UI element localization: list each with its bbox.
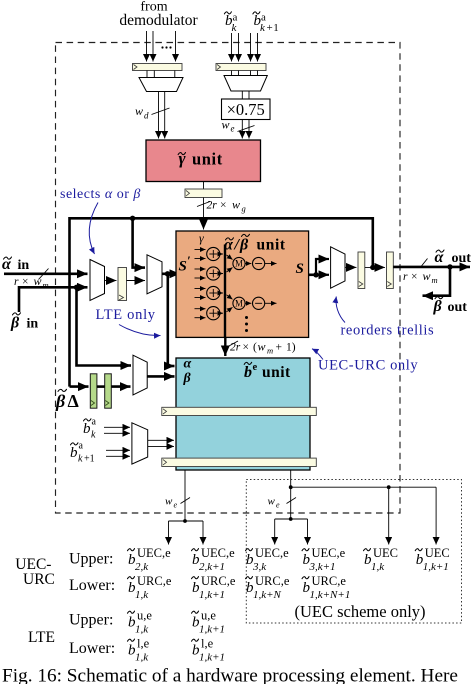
svg-text:Lower:: Lower: (69, 577, 115, 594)
max unit MX1 (227, 255, 246, 272)
feedback wire top (70, 216, 376, 387)
label we top (222, 118, 235, 134)
svg-text:1): 1) (286, 342, 296, 354)
be unit box (176, 358, 310, 470)
wire R1 to mux M2 (127, 280, 146, 282)
register bar bka (216, 64, 266, 71)
bus wd (152, 92, 170, 139)
svg-text:URC: URC (23, 571, 55, 588)
svg-text:Lower:: Lower: (69, 640, 115, 657)
wires register to funnel right (232, 71, 258, 76)
svg-text:l,e: l,e (137, 637, 150, 651)
svg-text:LTE only: LTE only (96, 307, 156, 323)
label b2k1-uece (192, 546, 236, 573)
label UEC-URC (15, 556, 55, 588)
label beta in (10, 313, 38, 332)
svg-text:×: × (220, 200, 227, 212)
wire R2 to R3 (365, 266, 385, 268)
mux M4 reorder (331, 247, 345, 288)
svg-text:out: out (452, 251, 472, 266)
wire fan2 from be unit (275, 470, 436, 545)
register R2 (358, 252, 365, 289)
svg-text:b: b (244, 364, 252, 381)
svg-text:2r: 2r (230, 342, 241, 354)
label b2k-uece (128, 546, 172, 573)
annotation LTE only (96, 307, 161, 336)
svg-text:β: β (10, 315, 20, 332)
svg-text:×0.75: ×0.75 (227, 100, 265, 119)
label b3k-uece (246, 546, 290, 573)
alpha/beta unit box (176, 231, 309, 337)
svg-text:1,k+1: 1,k+1 (423, 561, 449, 573)
svg-text:unit: unit (262, 364, 291, 381)
label b1k-uec (364, 546, 399, 573)
svg-text:r: r (403, 271, 408, 283)
svg-text:LTE: LTE (28, 629, 55, 646)
svg-text:g: g (242, 204, 246, 214)
svg-text:3,k+1: 3,k+1 (309, 561, 336, 573)
label b1k1-le (192, 637, 226, 664)
svg-text:d: d (144, 111, 149, 121)
svg-text:2r: 2r (207, 200, 218, 212)
svg-text:w: w (165, 496, 173, 508)
svg-text:URC,e: URC,e (312, 574, 347, 588)
svg-text:unit: unit (257, 237, 286, 254)
svg-text:m: m (267, 346, 273, 356)
svg-text:β: β (183, 371, 192, 386)
mux M1 input (90, 260, 105, 301)
svg-text:b: b (83, 421, 91, 437)
svg-text:3,k: 3,k (252, 561, 267, 573)
label we fan2 (268, 496, 281, 510)
svg-text:+1: +1 (84, 454, 95, 465)
svg-text:2,k+1: 2,k+1 (199, 561, 225, 573)
svg-text:×: × (243, 342, 250, 354)
label bka top (224, 12, 237, 35)
svg-text:Fig. 16: Schematic of a hardwa: Fig. 16: Schematic of a hardware process… (2, 666, 458, 684)
svg-text:β: β (433, 298, 443, 315)
svg-text:UEC,e: UEC,e (255, 546, 289, 560)
adder A4 (195, 307, 224, 320)
wires bka to register (232, 33, 258, 62)
label 2r x (wm+1) (230, 340, 296, 356)
svg-text:w: w (258, 340, 266, 354)
outer dashed box (56, 43, 401, 514)
svg-text:2,k: 2,k (135, 561, 149, 573)
svg-text:1,k+N: 1,k+N (253, 589, 282, 601)
svg-text:(UEC scheme only): (UEC scheme only) (294, 602, 425, 621)
svg-text:1,k+1: 1,k+1 (199, 589, 225, 601)
svg-text:Upper:: Upper: (69, 612, 113, 629)
svg-text:UEC,e: UEC,e (312, 546, 346, 560)
svg-text:′: ′ (187, 253, 191, 268)
svg-text:w: w (222, 118, 230, 132)
wires M5 to be unit (148, 440, 174, 446)
svg-text:in: in (18, 258, 30, 273)
adder A3 (195, 286, 224, 299)
svg-text:w: w (232, 198, 240, 212)
label beta out (433, 297, 468, 315)
label b1k-ue (128, 609, 153, 636)
svg-text:1,k+N+1: 1,k+N+1 (310, 589, 351, 601)
label alpha out (435, 249, 472, 266)
wire alpha out (393, 259, 470, 270)
wire select to mux M2 (133, 218, 145, 267)
wires bka into mux M5 (104, 427, 130, 456)
svg-text:out: out (448, 300, 468, 315)
annotation UEC-URC only (312, 349, 418, 374)
mux M2 (147, 255, 162, 294)
register bar demod (133, 64, 183, 71)
svg-text:URC,e: URC,e (201, 574, 236, 588)
svg-text:a: a (92, 417, 97, 428)
wire M4 to register R2 (345, 266, 357, 268)
svg-text:e: e (253, 362, 258, 373)
subtractor SB2 (245, 297, 276, 309)
label alpha in (2, 256, 29, 273)
svg-text:k: k (91, 430, 96, 441)
svg-text:(: ( (253, 342, 257, 354)
multiplier x0.75 box (222, 99, 271, 120)
max unit MX2 (227, 295, 246, 312)
svg-text:b: b (70, 445, 78, 461)
mux M5 (132, 423, 148, 464)
svg-text:S: S (296, 261, 304, 277)
svg-text:w: w (135, 104, 143, 118)
annotation selects alpha or beta (60, 187, 141, 254)
label from demodulator (119, 0, 198, 29)
wire S out of box (309, 259, 329, 277)
wire M1 to register R1 (105, 280, 117, 282)
svg-text:URC,e: URC,e (255, 574, 290, 588)
mux M3 lower (133, 355, 147, 395)
label S prime (179, 253, 192, 275)
svg-text:S: S (179, 259, 187, 275)
bus we to gamma unit (238, 120, 255, 139)
svg-text:α: α (184, 357, 192, 372)
bus funnel to x0.75 (242, 91, 249, 99)
label bk+1a lower (70, 441, 95, 465)
wire S prime into alpha-beta unit (162, 271, 180, 276)
svg-text:UEC,e: UEC,e (201, 546, 235, 560)
wire between green registers (97, 385, 105, 388)
svg-text:w: w (34, 274, 42, 288)
label bka lower (83, 417, 97, 441)
wire beta in (19, 285, 88, 312)
label b1k1-ue (192, 609, 226, 636)
register R3 (387, 252, 394, 289)
register bar B2 (162, 458, 316, 466)
label b1k-le (128, 637, 150, 664)
label 2r x wg (207, 198, 246, 214)
green register D2 (105, 374, 112, 408)
svg-text:Upper:: Upper: (69, 551, 113, 568)
svg-text:l,e: l,e (201, 637, 214, 651)
svg-text:×: × (411, 271, 418, 283)
adder A2 (195, 267, 224, 280)
register below gamma unit (185, 182, 222, 198)
wire alpha branch down to be unit (166, 274, 175, 366)
svg-text:k: k (260, 22, 266, 34)
green register D1 (90, 374, 97, 408)
gamma unit (146, 140, 261, 182)
register bar B1 (162, 407, 316, 415)
svg-text:Δ: Δ (68, 391, 79, 411)
wire beta to lower mux (77, 287, 132, 365)
svg-text:e: e (231, 124, 235, 134)
svg-text:a: a (79, 441, 84, 452)
svg-text:w: w (423, 269, 431, 283)
svg-text:e: e (276, 501, 280, 510)
svg-text:1,k+1: 1,k+1 (199, 651, 225, 663)
wires from demodulator (147, 31, 176, 62)
svg-text:γ: γ (199, 231, 204, 245)
wire green regs to lower mux (111, 385, 130, 388)
svg-text:1,k: 1,k (135, 589, 149, 601)
label b1kN-urce (246, 574, 290, 601)
svg-text:w: w (268, 496, 276, 508)
svg-text:M: M (235, 259, 243, 269)
svg-text:UEC: UEC (373, 546, 398, 560)
label b1k-urce (128, 574, 172, 601)
ellipsis dots (245, 316, 248, 332)
svg-text:k: k (78, 454, 83, 465)
label wd (135, 104, 149, 121)
label b1k1-urce (192, 574, 236, 601)
svg-text:M: M (235, 299, 243, 309)
svg-text:+: + (276, 342, 283, 354)
svg-text:β: β (55, 391, 66, 411)
svg-text:1,k+1: 1,k+1 (199, 623, 225, 635)
wire gamma to alpha-beta unit (197, 198, 210, 230)
svg-text:m: m (432, 275, 438, 285)
annotation reorders trellis (336, 297, 434, 339)
label bk+1a top (253, 12, 280, 35)
svg-text:demodulator: demodulator (119, 12, 198, 29)
internal gamma line (224, 245, 226, 338)
svg-text:1,k: 1,k (135, 623, 149, 635)
register R1 (118, 268, 127, 301)
label r x wm out (403, 269, 438, 285)
wire alpha in (4, 269, 88, 280)
label r x wm (14, 274, 49, 290)
wire M3 to be unit beta (147, 375, 174, 378)
wire 2r(wm+1) to be unit (225, 337, 238, 356)
svg-text:u,e: u,e (201, 609, 216, 623)
svg-text:u,e: u,e (137, 609, 152, 623)
svg-text:+1: +1 (267, 22, 280, 34)
label b1kN1-urce (302, 574, 350, 601)
svg-text:UEC: UEC (425, 546, 450, 560)
svg-text:selects α or β: selects α or β (60, 187, 141, 202)
svg-text:URC,e: URC,e (137, 574, 172, 588)
wire beta out (423, 267, 451, 296)
label b3k1-uece (302, 546, 346, 573)
label beta delta (55, 389, 79, 411)
adder A1 (195, 247, 224, 260)
svg-text:1,k: 1,k (371, 561, 385, 573)
svg-text:UEC,e: UEC,e (137, 546, 171, 560)
svg-text:1,k: 1,k (135, 651, 149, 663)
svg-text:unit: unit (192, 150, 223, 169)
svg-text:UEC-URC only: UEC-URC only (318, 358, 418, 374)
svg-text:γ: γ (179, 149, 187, 168)
svg-text:β: β (239, 237, 249, 254)
mux funnel left (139, 78, 183, 92)
svg-text:in: in (27, 317, 39, 332)
svg-text:reorders trellis: reorders trellis (341, 323, 435, 339)
UEC scheme only dotted box (246, 480, 461, 624)
mux funnel right (224, 76, 267, 92)
label we fan1 (165, 496, 178, 510)
wires register to funnel left (147, 71, 175, 78)
wire fan1 from be unit (169, 470, 204, 545)
subtractor SB1 (245, 257, 276, 269)
label b1k1-uec (415, 546, 450, 573)
svg-text:e: e (174, 501, 178, 510)
svg-text:k: k (232, 22, 238, 34)
